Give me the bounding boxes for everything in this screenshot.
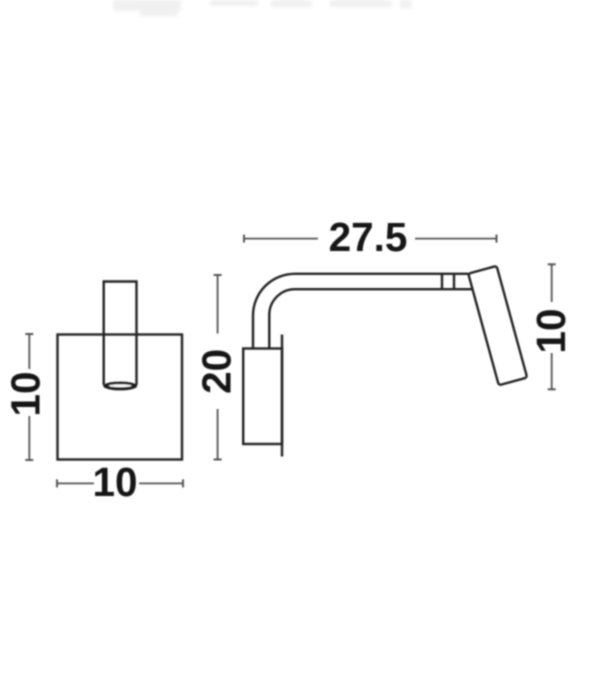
- watermark (cropped faint header text at top): [113, 0, 412, 16]
- side view: wall line behind plate: [281, 335, 283, 457]
- side view: arm outer contour (up from plate, bend, to head): [253, 274, 469, 349]
- front view: cylinder lamp body: [104, 282, 137, 386]
- svg-text:10: 10: [3, 371, 49, 416]
- front view: cylinder opening ellipse: [103, 382, 137, 391]
- svg-text:27.5: 27.5: [329, 214, 408, 260]
- side view: arm inner contour: [269, 289, 473, 348]
- svg-text:10: 10: [528, 308, 574, 353]
- side view: tilted cylindrical lamp head: [468, 266, 527, 385]
- dimension 10 (lamp head length, right): [528, 264, 574, 389]
- side view: mounting plate: [243, 349, 282, 445]
- svg-text:20: 20: [194, 349, 240, 394]
- dimension 10 width (front view, bottom): [57, 459, 183, 505]
- front view: square mounting plate: [58, 335, 183, 460]
- svg-text:10: 10: [92, 459, 137, 505]
- dimension 20 (overall height, middle): [194, 275, 240, 460]
- dimension 10 height (front view, left): [3, 334, 49, 460]
- side view: joint ring lines on arm: [441, 274, 443, 289]
- dimension 27.5 (arm length, top): [244, 214, 497, 260]
